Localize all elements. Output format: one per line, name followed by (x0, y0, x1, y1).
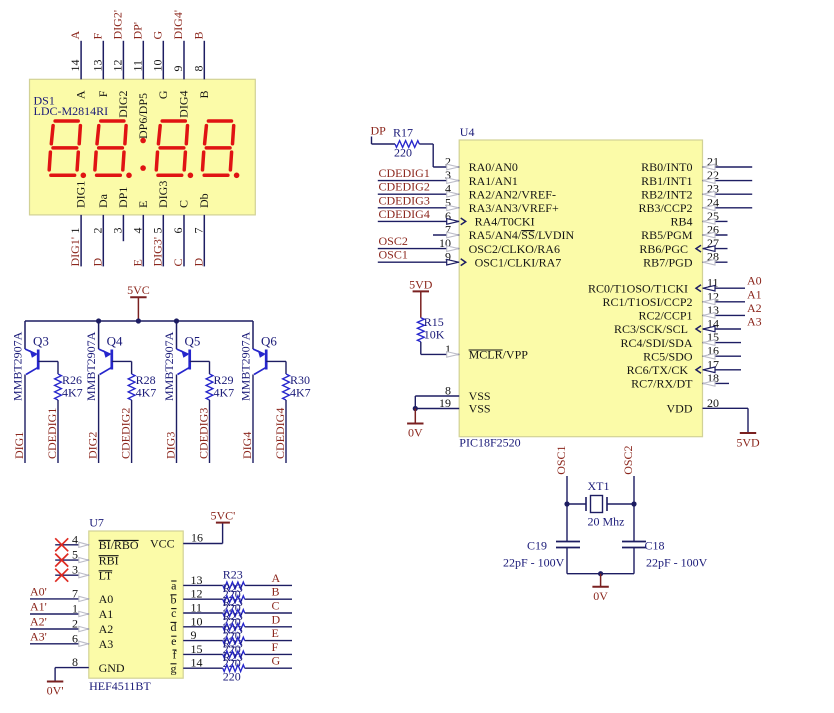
wire resistor R30 to net CDEDIG4 (285, 400, 287, 463)
svg-text:R23: R23 (223, 609, 243, 623)
resistor R30 4K7 (283, 374, 290, 400)
svg-text:F: F (90, 33, 104, 40)
svg-text:B: B (191, 31, 205, 39)
pin arrow (703, 353, 715, 359)
svg-text:8: 8 (72, 655, 78, 669)
wire GND pin 8 (55, 667, 89, 669)
svg-text:R23: R23 (223, 567, 243, 581)
pin arrow (79, 641, 89, 646)
svg-text:A1': A1' (30, 600, 47, 614)
svg-text:9: 9 (171, 66, 185, 72)
7-segment digit 3 (162, 119, 185, 123)
svg-text:MMBT2907A: MMBT2907A (11, 331, 25, 401)
svg-text:C19: C19 (527, 539, 547, 553)
wire pin 15 (703, 342, 742, 344)
capacitor C18 22pF (622, 541, 646, 543)
wire C19 down (566, 548, 568, 574)
svg-text:Q4: Q4 (107, 333, 123, 348)
wire resistor R26 to net CDEDIG1 (57, 400, 59, 463)
svg-text:RA0/AN0: RA0/AN0 (469, 160, 518, 174)
svg-text:220: 220 (223, 670, 241, 684)
svg-text:11: 11 (130, 60, 144, 72)
power symbol 5VD at R15 (420, 291, 422, 317)
svg-text:CDEDIG2: CDEDIG2 (119, 408, 133, 459)
ground symbol 0V (414, 409, 416, 424)
wire pin 11 (703, 287, 746, 289)
svg-text:4: 4 (72, 532, 78, 546)
wire DS1 bottom pin 5 (162, 215, 164, 267)
svg-text:RB0/INT0: RB0/INT0 (641, 160, 692, 174)
pin arrow (703, 340, 715, 346)
svg-text:1: 1 (68, 228, 82, 234)
wire base of Q4 (112, 360, 132, 362)
svg-text:DIG3': DIG3' (150, 237, 164, 267)
svg-text:4K7: 4K7 (62, 386, 83, 400)
svg-text:RB3/CCP2: RB3/CCP2 (638, 201, 692, 215)
wire DS1 top pin 10 (162, 41, 164, 80)
svg-text:G: G (150, 31, 164, 40)
svg-text:RC1/T1OSI/CCP2: RC1/T1OSI/CCP2 (602, 295, 692, 309)
pin arrow (79, 611, 89, 616)
svg-text:RC6/TX/CK: RC6/TX/CK (627, 363, 689, 377)
pin arrow (79, 573, 89, 578)
crystal XT1 (585, 497, 587, 511)
svg-text:Q6: Q6 (261, 333, 277, 348)
pin arrow (447, 191, 459, 197)
resistor R15 10K (417, 318, 424, 342)
svg-text:DP': DP' (130, 22, 144, 40)
wire R17 to pin 2 (419, 143, 433, 145)
svg-text:DIG4': DIG4' (171, 10, 185, 40)
svg-text:RA2/AN2/VREF-: RA2/AN2/VREF- (469, 187, 556, 201)
wire DS1 top pin 9 (183, 41, 185, 80)
svg-text:0V: 0V (408, 426, 423, 440)
wire pin 27 (703, 248, 728, 250)
wire DS1 top pin 14 (80, 41, 82, 80)
wire DS1 top pin 12 (122, 41, 124, 80)
svg-text:9: 9 (191, 628, 197, 642)
svg-text:13: 13 (191, 573, 203, 587)
junction (631, 501, 636, 506)
svg-text:3: 3 (110, 228, 124, 234)
svg-text:5VD: 5VD (409, 277, 433, 291)
wire pin 10 through resistor (183, 626, 223, 628)
svg-text:XT1: XT1 (588, 479, 610, 493)
pin arrow (703, 191, 715, 197)
pin arrow (703, 259, 715, 265)
wire resistor R28 to net CDEDIG2 (131, 400, 133, 463)
wire base of Q6 (266, 360, 286, 362)
7-segment display DS1 LDC-M2814RI body (30, 79, 256, 215)
resistor R23 220 segment e (223, 637, 245, 644)
wire pin 4 (55, 544, 89, 546)
svg-text:DIG3: DIG3 (164, 432, 178, 459)
svg-text:10K: 10K (424, 328, 445, 342)
wire DS1 bottom pin 3 (122, 215, 124, 241)
svg-text:A3: A3 (747, 315, 762, 329)
svg-text:A1: A1 (747, 287, 762, 301)
svg-text:DIG4: DIG4 (177, 91, 191, 118)
svg-text:0V: 0V (593, 589, 608, 603)
svg-text:DIG4: DIG4 (240, 432, 254, 459)
wire VCC pin 16 to 5VC' (183, 543, 222, 545)
svg-text:19: 19 (439, 396, 451, 410)
wire net CDEDIG3 to pin 5 (378, 207, 459, 209)
svg-text:4K7: 4K7 (290, 386, 311, 400)
power symbol 5VC (137, 297, 139, 321)
pin arrow (703, 299, 715, 305)
svg-text:CDEDIG1: CDEDIG1 (379, 166, 430, 180)
power symbol 5VD at VDD (740, 432, 756, 434)
svg-text:C: C (171, 258, 185, 266)
svg-text:A2': A2' (30, 615, 47, 629)
resistor R23 220 segment d (223, 623, 245, 630)
svg-text:OSC2/CLKO/RA6: OSC2/CLKO/RA6 (469, 242, 560, 256)
svg-text:D: D (90, 258, 104, 267)
svg-text:12: 12 (110, 60, 124, 72)
junction (598, 571, 603, 576)
wire crystal right (607, 503, 634, 505)
resistor R23 220 segment g (223, 665, 245, 672)
wire OSC2 stub (633, 476, 635, 504)
svg-text:MMBT2907A: MMBT2907A (239, 331, 253, 401)
svg-text:220: 220 (394, 146, 412, 160)
wire DS1 bottom pin 6 (183, 215, 185, 267)
svg-text:VCC: VCC (150, 537, 175, 551)
wire emitter of Q6 (252, 321, 254, 349)
pin arrow (703, 232, 715, 238)
svg-text:20 Mhz: 20 Mhz (588, 515, 625, 529)
svg-text:DIG2: DIG2 (116, 90, 130, 117)
svg-text:U7: U7 (89, 516, 104, 530)
pin arrow (447, 178, 459, 184)
resistor R23 220 segment a (223, 582, 245, 589)
svg-text:6: 6 (72, 631, 78, 645)
svg-text:A: A (68, 31, 82, 40)
wire pin 16 (703, 355, 742, 357)
wire net CDEDIG4 to pin 6 (378, 220, 459, 222)
svg-text:14: 14 (68, 60, 82, 72)
svg-text:CDEDIG3: CDEDIG3 (197, 408, 211, 459)
wire R15 to pin 1 MCLR (420, 342, 422, 355)
svg-text:5: 5 (72, 548, 78, 562)
wire emitter of Q3 (24, 321, 26, 349)
wire pin 17 (703, 369, 742, 371)
wire base of Q5 (190, 360, 210, 362)
svg-text:R23: R23 (223, 623, 243, 637)
wire C18 down (633, 548, 635, 574)
svg-text:RB1/INT1: RB1/INT1 (641, 174, 692, 188)
wire pin 12 (703, 301, 746, 303)
svg-text:OSC2: OSC2 (621, 445, 635, 474)
wire base of Q3 (38, 360, 58, 362)
svg-text:4K7: 4K7 (214, 386, 235, 400)
wire pin 7 stub (433, 234, 459, 236)
pin arrow (79, 542, 89, 547)
7-segment digit 1 (55, 119, 78, 123)
svg-text:MMBT2907A: MMBT2907A (162, 331, 176, 401)
svg-text:U4: U4 (460, 125, 475, 139)
ground symbol 0V' (54, 668, 56, 682)
resistor R17 220 (395, 141, 419, 148)
svg-text:10: 10 (150, 60, 164, 72)
pin arrow (703, 164, 715, 170)
svg-text:DIG1': DIG1' (68, 237, 82, 267)
svg-text:OSC1: OSC1 (379, 248, 408, 262)
pin arrow (703, 178, 715, 184)
svg-text:RB2/INT2: RB2/INT2 (641, 187, 692, 201)
wire pin 18 (703, 382, 730, 384)
junction (174, 318, 179, 323)
svg-text:8: 8 (191, 66, 205, 72)
wire pin 23 (703, 193, 753, 195)
pin arrow (703, 219, 715, 225)
wire pin 14 (703, 328, 742, 330)
pin arrow (703, 326, 715, 332)
svg-text:A0: A0 (747, 274, 762, 288)
svg-text:7: 7 (72, 586, 78, 600)
svg-text:RA1/AN1: RA1/AN1 (469, 174, 518, 188)
resistor R23 220 segment b (223, 596, 245, 603)
wire net A1' to pin 1 (30, 613, 89, 615)
svg-text:RB4: RB4 (670, 215, 692, 229)
svg-text:1: 1 (72, 602, 78, 616)
svg-text:3: 3 (72, 563, 78, 577)
wire emitter rail (25, 320, 253, 322)
svg-text:DP6/DP5: DP6/DP5 (136, 93, 150, 139)
svg-text:DIG2': DIG2' (110, 10, 124, 39)
svg-text:22pF - 100V: 22pF - 100V (503, 556, 565, 570)
wire DS1 top pin 8 (203, 41, 205, 80)
wire collector of Q6 to net DIG4 (252, 375, 254, 464)
svg-text:CDEDIG4: CDEDIG4 (273, 408, 287, 459)
junction (564, 501, 569, 506)
svg-text:A: A (74, 90, 88, 99)
wire pin 28 (703, 261, 728, 263)
no-connect X (55, 569, 68, 582)
pin arrow (447, 205, 459, 211)
ground symbol 0V (600, 574, 602, 587)
svg-text:D: D (272, 612, 281, 626)
svg-text:OSC2: OSC2 (379, 234, 408, 248)
wire VSS pin 19 (415, 408, 459, 410)
wire emitter of Q4 (98, 321, 100, 349)
wire collector of Q4 to net DIG2 (98, 375, 100, 464)
svg-text:5: 5 (150, 228, 164, 234)
svg-text:RA3/AN3/VREF+: RA3/AN3/VREF+ (469, 201, 559, 215)
pin arrow (703, 381, 715, 387)
IC U7 HEF4511BT body (89, 531, 183, 678)
svg-text:A3': A3' (30, 629, 47, 643)
pin arrow (447, 219, 459, 225)
svg-text:7: 7 (191, 228, 205, 234)
pin arrow (447, 232, 459, 238)
wire DS1 top pin 11 (142, 41, 144, 80)
wire pin 21 (703, 166, 753, 168)
wire collector of Q5 to net DIG3 (176, 375, 178, 464)
svg-text:RA4/T0CKI: RA4/T0CKI (475, 215, 535, 229)
wire crystal left (567, 503, 586, 505)
svg-text:RC4/SDI/SDA: RC4/SDI/SDA (620, 336, 692, 350)
wire bottom rail (567, 573, 634, 575)
resistor R23 220 segment f (223, 651, 245, 658)
no-connect X (55, 554, 68, 567)
svg-text:6: 6 (171, 228, 185, 234)
svg-text:RB6/PGC: RB6/PGC (639, 242, 688, 256)
svg-text:G: G (156, 90, 170, 99)
svg-text:A2: A2 (99, 622, 114, 636)
svg-text:CDEDIG1: CDEDIG1 (45, 408, 59, 459)
wire net CDEDIG1 to pin 3 (378, 180, 459, 182)
pin arrow (447, 259, 459, 265)
svg-text:Db: Db (197, 193, 211, 208)
svg-text:14: 14 (191, 656, 203, 670)
svg-text:OSC1/CLKI/RA7: OSC1/CLKI/RA7 (475, 255, 562, 269)
wire DS1 bottom pin 2 (102, 215, 104, 267)
wire pin 11 through resistor (183, 612, 223, 614)
wire pin 24 (703, 207, 753, 209)
wire DS1 top pin 13 (102, 41, 104, 80)
svg-text:D: D (191, 258, 205, 267)
svg-text:G: G (272, 654, 281, 668)
wire net A0' to pin 7 (30, 598, 89, 600)
wire pin 13 through resistor (183, 584, 223, 586)
svg-text:CDEDIG2: CDEDIG2 (379, 180, 430, 194)
svg-text:5VC: 5VC (127, 283, 150, 297)
svg-text:DIG2: DIG2 (86, 432, 100, 459)
wire pin 15 through resistor (183, 653, 223, 655)
svg-text:E: E (130, 259, 144, 266)
wire pin 25 (703, 220, 728, 222)
7-segment digit 4 (208, 119, 231, 123)
svg-text:RB7/PGD: RB7/PGD (643, 255, 693, 269)
svg-text:13: 13 (90, 60, 104, 72)
wire DS1 bottom pin 1 (80, 215, 82, 267)
svg-text:VSS: VSS (469, 402, 491, 416)
wire pin 5 (55, 559, 89, 561)
svg-text:GND: GND (99, 661, 125, 675)
svg-text:15: 15 (191, 642, 203, 656)
wire pin 3 (55, 574, 89, 576)
resistor R29 4K7 (206, 374, 213, 400)
svg-text:HEF4511BT: HEF4511BT (89, 679, 151, 693)
capacitor C19 22pF (556, 541, 580, 543)
power symbol 5VC' (216, 522, 230, 524)
resistor R28 4K7 (128, 374, 135, 400)
transistor Q6 MMBT2907A (253, 349, 265, 354)
svg-text:4: 4 (130, 228, 144, 234)
wire DP to R17 (371, 137, 373, 145)
svg-text:DP: DP (371, 124, 387, 138)
svg-text:C: C (272, 599, 280, 613)
wire DS1 bottom pin 4 (142, 215, 144, 267)
no-connect X (55, 538, 68, 551)
svg-text:PIC18F2520: PIC18F2520 (459, 436, 520, 450)
pin arrow (447, 246, 459, 252)
svg-text:A1: A1 (99, 607, 114, 621)
wire pin 22 (703, 180, 753, 182)
wire net A2' to pin 2 (30, 628, 89, 630)
svg-text:A0': A0' (30, 584, 47, 598)
svg-text:Q5: Q5 (185, 333, 201, 348)
svg-text:F: F (96, 90, 110, 97)
svg-text:RC7/RX/DT: RC7/RX/DT (631, 377, 693, 391)
resistor R23 220 segment c (223, 610, 245, 617)
7-segment digit 2 (101, 119, 124, 123)
svg-text:DP1: DP1 (116, 187, 130, 208)
svg-text:LDC-M2814RI: LDC-M2814RI (34, 104, 109, 118)
svg-text:10: 10 (191, 614, 203, 628)
wire VSS pin 8 (415, 395, 459, 397)
pin arrow (79, 558, 89, 563)
wire net CDEDIG2 to pin 4 (378, 193, 459, 195)
junction (96, 318, 101, 323)
svg-text:CDEDIG3: CDEDIG3 (379, 193, 430, 207)
wire emitter of Q5 (176, 321, 178, 349)
svg-text:RC5/SDO: RC5/SDO (643, 349, 693, 363)
svg-text:A3: A3 (99, 637, 114, 651)
svg-text:R23: R23 (223, 595, 243, 609)
wire pin 14 through resistor (183, 667, 223, 669)
transistor Q5 MMBT2907A (177, 349, 189, 354)
svg-text:RC0/T1OSO/T1CKI: RC0/T1OSO/T1CKI (588, 281, 688, 295)
svg-text:RC2/CCP1: RC2/CCP1 (638, 309, 692, 323)
wire VDD pin 20 (703, 407, 749, 409)
svg-text:C18: C18 (645, 539, 665, 553)
svg-text:5VD: 5VD (736, 436, 760, 450)
svg-text:11: 11 (191, 601, 203, 615)
svg-text:2: 2 (90, 228, 104, 234)
svg-text:Da: Da (96, 193, 110, 208)
wire pin 26 (703, 234, 728, 236)
svg-text:Q3: Q3 (33, 333, 49, 348)
svg-text:2: 2 (72, 617, 78, 631)
wire resistor R29 to net CDEDIG3 (209, 400, 211, 463)
svg-text:DIG1: DIG1 (12, 432, 26, 459)
svg-text:CDEDIG4: CDEDIG4 (379, 207, 430, 221)
svg-text:F: F (272, 640, 279, 654)
svg-text:R23: R23 (223, 636, 243, 650)
junction (413, 406, 418, 411)
wire VSS join (414, 396, 416, 409)
resistor R26 4K7 (55, 374, 62, 400)
svg-text:B: B (272, 585, 280, 599)
svg-text:16: 16 (191, 531, 203, 545)
svg-text:R23: R23 (223, 650, 243, 664)
wire OSC1 to C19 (566, 504, 568, 542)
svg-text:R17: R17 (393, 126, 413, 140)
wire OSC1 stub (566, 476, 568, 504)
svg-text:OSC1: OSC1 (554, 445, 568, 474)
pin arrow (79, 596, 89, 601)
transistor Q4 MMBT2907A (99, 349, 111, 354)
wire pin 12 through resistor (183, 598, 223, 600)
wire net A3' to pin 6 (30, 643, 89, 645)
colon dots (140, 138, 146, 144)
IC U4 PIC18F2520 body (459, 140, 702, 437)
svg-text:22pF - 100V: 22pF - 100V (646, 556, 708, 570)
pin arrow (703, 285, 715, 291)
wire net OSC2 to pin 10 (378, 248, 459, 250)
svg-text:MMBT2907A: MMBT2907A (84, 331, 98, 401)
pin arrow (79, 626, 89, 631)
svg-text:DIG1: DIG1 (74, 181, 88, 208)
svg-text:E: E (136, 201, 150, 208)
pin arrow (703, 246, 715, 252)
svg-text:VDD: VDD (667, 402, 693, 416)
transistor Q3 MMBT2907A (25, 349, 37, 354)
wire net OSC1 to pin 9 (378, 261, 459, 263)
